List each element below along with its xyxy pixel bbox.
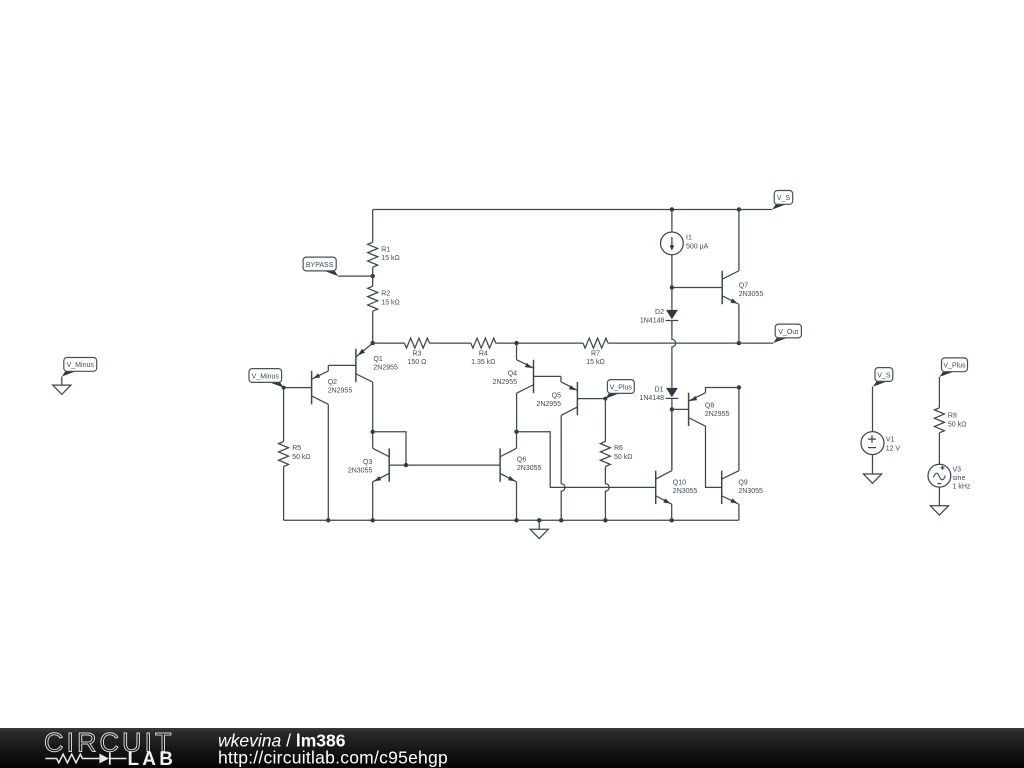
current source I1 <box>661 232 709 255</box>
wire D2 to hop <box>672 321 676 388</box>
node rail-Q5 collector <box>559 518 563 522</box>
flag BYPASS <box>303 257 338 276</box>
wire R1 to bypass node <box>372 267 374 276</box>
svg-text:2N2955: 2N2955 <box>536 401 561 408</box>
wire Q4 emitter from node <box>516 343 518 360</box>
svg-text:R2: R2 <box>381 290 390 297</box>
svg-text:Q10: Q10 <box>673 480 686 487</box>
svg-text:2N2955: 2N2955 <box>492 379 517 386</box>
wire Q10 collector up <box>671 409 673 470</box>
wire top supply rail <box>373 209 773 211</box>
node V_Out junction <box>737 341 741 345</box>
resistor R8 <box>934 408 966 433</box>
wire bypass node to R2 <box>372 276 374 286</box>
node junction rail-Q7 collector <box>737 207 741 211</box>
node Q4-Q6 collector junction <box>514 430 518 434</box>
svg-text:2N3055: 2N3055 <box>673 488 698 495</box>
svg-text:V_S: V_S <box>877 372 891 379</box>
svg-text:500 µA: 500 µA <box>686 243 709 250</box>
wire rail to I1 <box>671 210 673 233</box>
svg-text:15 kΩ: 15 kΩ <box>381 299 399 306</box>
flag V_Plus right <box>940 358 968 377</box>
ground left <box>53 377 71 395</box>
svg-text:Q9: Q9 <box>738 480 747 487</box>
flag V_S right <box>873 368 893 387</box>
wire V_Plus to R6 <box>604 399 606 442</box>
flag V_Minus left <box>62 358 97 377</box>
wire R4 to R7 <box>496 342 583 344</box>
wire Q6 collector to Q10 base <box>517 432 656 488</box>
wire Q6 collector up <box>516 432 518 449</box>
svg-text:R3: R3 <box>412 351 421 358</box>
wire rail to R1 <box>372 210 374 243</box>
svg-text:2N3055: 2N3055 <box>348 467 373 474</box>
logo resistor-diode art <box>45 754 99 763</box>
resistor R6 <box>600 442 632 467</box>
svg-text:12 V: 12 V <box>886 445 901 452</box>
node junction rail-I1 <box>670 207 674 211</box>
svg-text:Q8: Q8 <box>705 403 714 410</box>
node BYPASS junction <box>371 274 375 278</box>
svg-text:150 Ω: 150 Ω <box>407 359 426 366</box>
node Q3 base junction <box>404 463 408 467</box>
transistor Q7 2N3055 <box>722 271 763 305</box>
resistor R4 <box>471 338 496 366</box>
voltage source V3 sine <box>928 464 971 490</box>
svg-text:V_S: V_S <box>777 195 791 202</box>
wire Q7 collector up <box>738 210 740 271</box>
ground V1 <box>863 474 881 483</box>
wire Q4 collector down <box>516 393 518 432</box>
diode D2 1N4148 <box>640 288 678 325</box>
transistor Q10 2N3055 <box>656 471 698 505</box>
wire Q3 collector-base link <box>373 432 406 465</box>
node V_Minus junction <box>282 386 286 390</box>
svg-text:15 kΩ: 15 kΩ <box>586 359 604 366</box>
svg-text:Q7: Q7 <box>739 283 748 290</box>
svg-text:Q3: Q3 <box>363 459 372 466</box>
svg-text:LAB: LAB <box>128 749 177 768</box>
svg-text:V1: V1 <box>886 436 895 443</box>
ground V3 <box>930 506 948 515</box>
wire I1 to D2 node <box>671 255 673 288</box>
wire Q3 emitter down <box>372 482 374 520</box>
node rail-R6 <box>603 518 607 522</box>
svg-text:R7: R7 <box>591 351 600 358</box>
node V_Plus junction <box>603 397 607 401</box>
wire V_Minus to R5 <box>283 388 285 442</box>
transistor Q8 2N2955 <box>672 393 730 427</box>
wire Q3 base to Q6 base <box>406 464 500 466</box>
wire V1 to ground <box>872 455 874 474</box>
svg-text:Q1: Q1 <box>373 356 382 363</box>
node Q1-Q3 collector junction <box>371 430 375 434</box>
wire Q8 collector to Q9 base <box>706 426 722 487</box>
wire V_Out node to flag <box>739 342 773 344</box>
flag V_Plus mid <box>605 380 634 399</box>
svg-text:V_Minus: V_Minus <box>67 362 95 369</box>
svg-text:1.35 kΩ: 1.35 kΩ <box>471 359 495 366</box>
wire R7 to V_Out node <box>608 342 739 344</box>
flag V_Out <box>773 324 801 343</box>
svg-text:Q4: Q4 <box>508 371 517 378</box>
wire D1 to Q10 collector <box>671 398 673 470</box>
svg-text:2N2955: 2N2955 <box>328 388 353 395</box>
resistor R7 <box>583 338 608 366</box>
transistor Q6 2N3055 <box>500 448 541 482</box>
svg-text:2N2955: 2N2955 <box>705 411 730 418</box>
svg-text:15 kΩ: 15 kΩ <box>381 255 399 262</box>
node rail-Q3 emitter <box>371 518 375 522</box>
flag V_Minus input <box>249 369 284 388</box>
svg-text:50 kΩ: 50 kΩ <box>948 421 966 428</box>
node rail-ground <box>537 518 541 522</box>
svg-text:http://circuitlab.com/c95ehgp: http://circuitlab.com/c95ehgp <box>218 748 448 768</box>
transistor Q3 2N3055 <box>348 448 406 482</box>
svg-text:BYPASS: BYPASS <box>306 262 334 269</box>
node Q8 emitter junction <box>737 385 741 389</box>
svg-text:I1: I1 <box>686 234 692 241</box>
wire V3 to ground <box>938 487 940 506</box>
node rail-Q6 emitter <box>514 518 518 522</box>
resistor R1 <box>368 242 400 267</box>
svg-text:R5: R5 <box>292 445 301 452</box>
svg-text:sine: sine <box>953 475 966 482</box>
wire Q2 collector down <box>327 404 329 520</box>
footer bar <box>0 728 1024 768</box>
wire Q5 collector down with hop <box>561 415 565 520</box>
svg-text:V_Plus: V_Plus <box>943 363 966 370</box>
transistor Q4 2N2955 <box>492 360 560 394</box>
resistor R2 <box>368 286 400 311</box>
wire bottom rail <box>284 519 739 521</box>
svg-text:D2: D2 <box>655 309 664 316</box>
wire Q9 emitter down <box>738 504 740 520</box>
wire Q7 emitter down <box>738 304 740 343</box>
svg-text:R1: R1 <box>381 246 390 253</box>
wire Q10 emitter down <box>671 504 673 520</box>
transistor Q1 2N2955 <box>328 343 398 382</box>
wire R8 to V3 <box>938 433 940 465</box>
svg-text:50 kΩ: 50 kΩ <box>614 454 632 461</box>
voltage source V1 12V <box>861 432 900 455</box>
wire node A to R3 <box>373 342 405 344</box>
svg-text:R8: R8 <box>948 413 957 420</box>
wire Q7 base <box>672 287 722 289</box>
svg-text:2N2955: 2N2955 <box>373 365 398 372</box>
ground center <box>530 520 548 538</box>
flag V_S top <box>772 191 793 210</box>
wire R6 down with hop <box>605 467 609 521</box>
svg-text:2N3055: 2N3055 <box>739 291 764 298</box>
wire Q1 collector down <box>372 382 374 432</box>
wire V_S to V1 <box>872 387 874 432</box>
wire Q3 collector up <box>372 432 374 449</box>
svg-text:Q6: Q6 <box>517 457 526 464</box>
wire Q6 emitter down <box>516 482 518 520</box>
wire Q8 emitter from column <box>706 388 739 393</box>
wire R3 to R4 <box>429 342 470 344</box>
node rail-Q10 emitter <box>670 518 674 522</box>
node D1-Q8 base-Q10 collector <box>670 407 674 411</box>
transistor Q5 2N2955 <box>536 382 605 416</box>
node Q2 collector-rail <box>326 518 330 522</box>
wire bypass flag <box>338 275 373 277</box>
wire Q9 collector up <box>738 388 740 471</box>
svg-text:V3: V3 <box>953 467 962 474</box>
wire R2 to node A <box>372 311 374 343</box>
wire Q1 base to Q2 emitter corner <box>327 365 329 371</box>
diode D1 1N4148 <box>639 386 678 402</box>
svg-text:D1: D1 <box>655 386 664 393</box>
node A R2-Q1-R3 <box>371 341 375 345</box>
wire V_Plus to R8 <box>938 377 940 408</box>
svg-text:Q2: Q2 <box>328 379 337 386</box>
svg-text:50 kΩ: 50 kΩ <box>292 454 310 461</box>
svg-text:2N3055: 2N3055 <box>738 488 763 495</box>
svg-text:R6: R6 <box>614 445 623 452</box>
transistor Q9 2N3055 <box>722 471 763 505</box>
svg-text:Q5: Q5 <box>552 392 561 399</box>
wire R5 to rail corner <box>283 467 285 521</box>
wire Q4 base to Q5 emitter corner <box>560 376 562 381</box>
transistor Q2 2N2955 <box>284 371 353 404</box>
svg-text:V_Plus: V_Plus <box>610 384 633 391</box>
svg-text:1N4148: 1N4148 <box>640 318 665 325</box>
resistor R5 <box>279 442 311 467</box>
svg-text:1N4148: 1N4148 <box>639 395 664 402</box>
svg-text:2N3055: 2N3055 <box>517 465 542 472</box>
svg-text:1 kHz: 1 kHz <box>953 483 971 490</box>
svg-text:V_Minus: V_Minus <box>252 373 280 380</box>
resistor R3 <box>404 338 429 366</box>
node junction R4-Q4 emitter <box>514 341 518 345</box>
svg-text:V_Out: V_Out <box>778 329 798 336</box>
node I1-D2-Q7base <box>670 285 674 289</box>
svg-text:R4: R4 <box>479 351 488 358</box>
